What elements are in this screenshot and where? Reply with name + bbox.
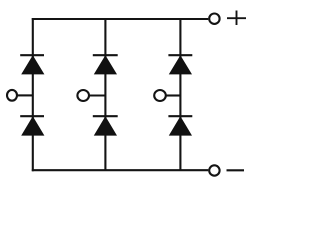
- diode D5 (leg 2 lower): [93, 116, 118, 135]
- DC output terminal +: [209, 14, 219, 24]
- wire AC input 2: [89, 94, 105, 96]
- AC input terminal 1: [7, 90, 17, 101]
- plus sign: [227, 11, 246, 26]
- wire AC input 3: [166, 94, 180, 96]
- minus sign: [227, 169, 245, 171]
- DC output terminal -: [209, 165, 219, 175]
- wire leg 1: [32, 18, 34, 171]
- wire leg 3: [179, 19, 181, 170]
- AC input terminal 2: [77, 90, 89, 101]
- wire bottom rail: [32, 169, 209, 171]
- diode D1 (leg 1 upper): [20, 55, 44, 74]
- diode D4 (leg 1 lower): [20, 116, 44, 135]
- wire AC input 1: [17, 94, 33, 96]
- AC input terminal 3: [154, 90, 166, 101]
- wire leg 2: [104, 19, 106, 170]
- diode D6 (leg 3 lower): [168, 116, 192, 135]
- diode D3 (leg 3 upper): [168, 55, 192, 74]
- wire top rail: [32, 18, 209, 20]
- diode D2 (leg 2 upper): [93, 55, 118, 74]
